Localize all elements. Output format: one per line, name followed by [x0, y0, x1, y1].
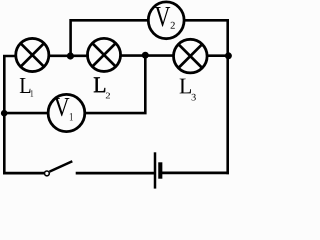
- wire: L2 to L3 through node C: [120, 54, 175, 57]
- node A junction dot (between L1 and L2): [67, 52, 74, 59]
- voltmeter V1 circle: [48, 94, 85, 131]
- lamp L1: [16, 38, 49, 71]
- node C junction dot (between L2 and L3): [142, 52, 149, 59]
- subscript 2 of V2: [171, 22, 175, 29]
- battery short thick (negative) plate: [158, 162, 162, 178]
- letter L of label L3: [180, 79, 191, 94]
- wire: node A up to top rail, across to V2 left terminal: [71, 20, 149, 56]
- switch blade (open): [50, 161, 73, 171]
- subscript 2 of L2: [106, 93, 110, 99]
- wire: bottom-left segment to switch pivot: [3, 172, 45, 175]
- letter L of label L2: [94, 77, 105, 92]
- battery long (positive) plate: [154, 152, 157, 188]
- letter L of label L1: [20, 78, 31, 93]
- letter V of voltmeter V1: [54, 98, 69, 116]
- junction dot on left rail at V1 lead: [1, 110, 8, 117]
- wire: V2 right terminal to top-right corner, right rail down: [184, 20, 228, 174]
- wire: L1 left lead, left rail down to bottom wire: [4, 56, 15, 174]
- subscript 1 of L1: [31, 90, 34, 96]
- wire: L3 right lead to right rail junction: [207, 54, 230, 57]
- wire: switch fixed contact to battery long plate: [76, 172, 154, 175]
- wire: V1 right lead and riser up to node C: [85, 56, 146, 113]
- letter V of voltmeter V2: [155, 7, 170, 27]
- subscript 1 of V1: [70, 113, 73, 120]
- switch pivot contact: [45, 171, 50, 176]
- wire: L1 to L2 through node A: [48, 54, 90, 57]
- voltmeter V2 circle: [148, 2, 184, 39]
- lamp L3: [174, 39, 208, 73]
- wire: left rail junction to V1 left terminal: [4, 112, 48, 115]
- lamp L2: [87, 38, 120, 71]
- wire: battery short plate to bottom-right corner: [162, 171, 230, 174]
- subscript 3 of L3: [192, 94, 196, 101]
- junction dot on right rail at L3 lead: [225, 52, 232, 59]
